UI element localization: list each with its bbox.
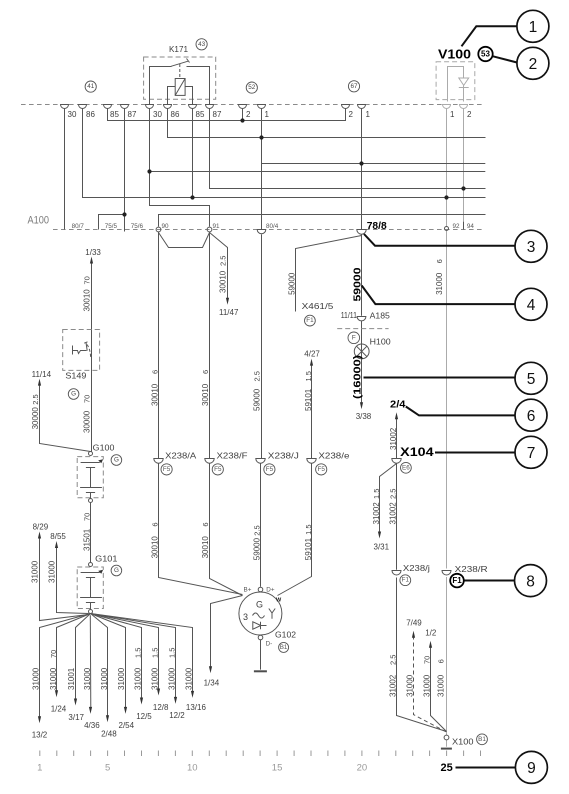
junction V100 pin1 wire and H5 xyxy=(444,195,448,199)
svg-text:2.5: 2.5 xyxy=(253,525,262,535)
pin cup 1 52group xyxy=(258,105,266,109)
wire pin1 52-group to A100 80/4 with branches H1 H2 xyxy=(261,109,263,232)
terminal circle F5 X238/e xyxy=(316,464,327,475)
svg-text:B+: B+ xyxy=(244,587,252,594)
wire pin2 52-group down to H121 junction xyxy=(242,109,244,121)
wire G101 node to 13/16 xyxy=(91,614,193,694)
svg-text:31002: 31002 xyxy=(389,502,398,525)
svg-text:9: 9 xyxy=(527,760,536,777)
svg-text:75/6: 75/6 xyxy=(131,223,144,230)
svg-text:6: 6 xyxy=(527,408,536,425)
callout circle 3 xyxy=(515,230,547,262)
callout circle 4 xyxy=(515,288,547,320)
svg-text:59000: 59000 xyxy=(253,537,262,560)
svg-text:90: 90 xyxy=(162,223,170,230)
pin cup 85 relay xyxy=(189,105,197,109)
A100 78/8 cup xyxy=(357,230,366,235)
junction pin87-left and 75/5 bracket xyxy=(122,212,126,216)
svg-text:F1: F1 xyxy=(402,577,410,584)
svg-text:5: 5 xyxy=(527,371,536,388)
svg-text:1.5: 1.5 xyxy=(304,524,313,534)
svg-text:30010: 30010 xyxy=(150,383,159,406)
relay K171 pin87 wire to horizontal H4 xyxy=(210,100,486,189)
svg-text:31000: 31000 xyxy=(49,667,58,690)
relay K171 dashed box xyxy=(144,57,216,99)
svg-text:86: 86 xyxy=(86,110,95,119)
svg-text:X104: X104 xyxy=(400,445,434,459)
battery G101 terminals xyxy=(89,563,93,567)
svg-text:F5: F5 xyxy=(266,466,274,473)
ground G102 xyxy=(254,670,267,672)
svg-text:41: 41 xyxy=(87,83,95,90)
svg-text:86: 86 xyxy=(171,110,180,119)
svg-text:D+: D+ xyxy=(266,587,275,594)
callout line 9 to ruler 25 xyxy=(456,767,516,769)
connector X238/F cup xyxy=(205,459,214,464)
svg-text:30000: 30000 xyxy=(31,407,40,430)
svg-text:31000: 31000 xyxy=(30,560,39,583)
wire A100 90 down to connector X238/A xyxy=(158,232,160,459)
wire X104 down to connector X238/j xyxy=(396,463,398,570)
callout line 3 to A100 78/8 xyxy=(364,234,515,246)
svg-text:2.5: 2.5 xyxy=(389,489,398,499)
pin cup 1 67group xyxy=(358,105,366,109)
svg-text:3/17: 3/17 xyxy=(68,713,84,722)
svg-text:13/2: 13/2 xyxy=(32,731,48,740)
svg-text:G: G xyxy=(256,600,263,610)
svg-text:30010: 30010 xyxy=(83,289,92,312)
wire generator B+ to 1/34 xyxy=(211,596,243,669)
svg-text:53: 53 xyxy=(481,50,490,59)
relay K171 pin86 wire to horizontal H1 xyxy=(168,100,486,138)
diode V100 dashed box xyxy=(436,62,475,100)
callout circle 2 xyxy=(517,47,549,79)
top connector bus dashed line xyxy=(21,104,483,106)
svg-text:10: 10 xyxy=(187,763,198,774)
svg-text:1/33: 1/33 xyxy=(85,248,101,257)
svg-text:1: 1 xyxy=(366,110,371,119)
svg-text:E6: E6 xyxy=(402,464,410,471)
pin cup 86 relay xyxy=(164,105,172,109)
svg-text:31501: 31501 xyxy=(83,528,92,551)
terminal circle F1 X238/R bold xyxy=(450,574,464,588)
junction pin85-left and pin2-52group xyxy=(240,118,244,122)
svg-text:W: W xyxy=(276,598,282,604)
svg-text:70: 70 xyxy=(83,276,92,284)
svg-text:1: 1 xyxy=(265,110,270,119)
junction pin30 relay and H3 xyxy=(147,169,151,173)
svg-text:G100: G100 xyxy=(93,444,115,453)
svg-text:G102: G102 xyxy=(275,631,297,640)
callout circle 5 xyxy=(515,362,547,394)
callout circle 6 xyxy=(515,399,547,431)
svg-text:X461/5: X461/5 xyxy=(302,302,334,311)
battery G101 plates xyxy=(81,572,100,574)
svg-text:7: 7 xyxy=(527,445,536,462)
position circle 52 xyxy=(246,82,257,93)
relay K171 coil taps xyxy=(168,87,176,105)
relay K171 pin85 wire down to H5 junction xyxy=(192,99,194,197)
svg-text:94: 94 xyxy=(467,223,475,230)
battery G100 terminals xyxy=(89,452,93,456)
svg-text:59000: 59000 xyxy=(288,272,297,295)
svg-text:V100: V100 xyxy=(438,48,471,62)
X100 terminal circle xyxy=(444,735,449,740)
svg-text:70: 70 xyxy=(83,395,92,403)
pin cup 2 67group xyxy=(342,105,350,109)
callout line 8 to X238/R terminal xyxy=(465,580,515,582)
svg-text:31000: 31000 xyxy=(167,667,176,690)
svg-text:85: 85 xyxy=(196,110,205,119)
svg-text:11/11: 11/11 xyxy=(341,311,358,320)
svg-text:6: 6 xyxy=(201,522,210,526)
svg-text:F1: F1 xyxy=(306,317,314,324)
svg-text:S149: S149 xyxy=(65,372,87,381)
pin cup 30 left xyxy=(61,105,69,109)
svg-text:6: 6 xyxy=(201,370,210,374)
terminal circle G of S149 xyxy=(68,389,79,400)
svg-text:3/31: 3/31 xyxy=(374,543,390,552)
svg-text:25: 25 xyxy=(440,762,452,774)
connector X238/R cup xyxy=(442,571,451,576)
svg-text:31000: 31000 xyxy=(100,667,109,690)
junction 80/4 wire and H1 xyxy=(259,135,263,139)
svg-text:2.5: 2.5 xyxy=(31,394,40,404)
pin cup V100-2 xyxy=(460,105,468,109)
svg-text:31000: 31000 xyxy=(83,667,92,690)
svg-text:6: 6 xyxy=(150,522,159,526)
svg-text:2/48: 2/48 xyxy=(101,730,117,739)
scale ruler ticks xyxy=(40,751,481,757)
callout circle 8 xyxy=(515,565,547,597)
generator D+ terminal xyxy=(258,587,263,592)
svg-text:30010: 30010 xyxy=(219,270,228,293)
position circle 43 xyxy=(196,39,207,50)
svg-text:30: 30 xyxy=(68,110,77,119)
terminal circle G of G101 xyxy=(111,565,122,576)
A100 90 terminal xyxy=(156,227,161,232)
svg-text:31000: 31000 xyxy=(406,674,415,697)
svg-text:F5: F5 xyxy=(318,466,326,473)
svg-text:11/47: 11/47 xyxy=(219,308,239,317)
wire H6 horizontal from A100 90 xyxy=(159,215,486,227)
svg-text:31000: 31000 xyxy=(435,272,444,295)
svg-text:43: 43 xyxy=(198,41,206,48)
wire 4/27 down to connector X238/e xyxy=(311,364,313,459)
svg-text:1: 1 xyxy=(529,19,538,36)
pin cup 86 left xyxy=(79,105,87,109)
relay K171 switch contact xyxy=(150,67,172,105)
svg-text:12/5: 12/5 xyxy=(136,712,152,721)
wire A100 91 branch to 11/47 xyxy=(210,233,228,301)
svg-text:X238/A: X238/A xyxy=(165,452,197,461)
svg-text:2.5: 2.5 xyxy=(219,256,228,266)
wire G100 to G101 xyxy=(90,503,92,562)
svg-text:59101: 59101 xyxy=(304,388,313,411)
wire G101 node to 13/2 xyxy=(40,614,91,719)
svg-text:2: 2 xyxy=(349,110,354,119)
svg-text:12/2: 12/2 xyxy=(169,711,185,720)
svg-text:A100: A100 xyxy=(28,215,50,227)
svg-text:30: 30 xyxy=(153,110,162,119)
wire X238/e to generator W xyxy=(278,464,312,596)
A100 80/4 cup xyxy=(257,230,266,234)
connector A185 11/11 cup xyxy=(357,317,366,321)
wire X238/F to generator B+ xyxy=(210,464,243,596)
wire V100 pin1 to A100 terminal 92 (gray) xyxy=(446,109,448,227)
relay K171 pin30 wire down with branch H3 and to A100 91 xyxy=(150,100,210,227)
svg-text:1.5: 1.5 xyxy=(372,489,381,499)
svg-text:3/38: 3/38 xyxy=(356,412,372,421)
A100 92 terminal xyxy=(445,227,449,231)
svg-text:1: 1 xyxy=(37,763,42,774)
svg-text:30000: 30000 xyxy=(83,410,92,433)
position circle 67 xyxy=(348,81,359,92)
terminal circle F5 X238/A xyxy=(161,464,172,475)
wire G101 node to 2/48 xyxy=(91,614,108,718)
switch S149 dashed box xyxy=(63,330,100,371)
svg-text:31002: 31002 xyxy=(389,427,398,450)
svg-text:20: 20 xyxy=(357,763,368,774)
wire X104 2/4 down to connector X104 xyxy=(396,417,398,459)
svg-text:F5: F5 xyxy=(163,466,171,473)
pin cup 87 left xyxy=(121,105,129,109)
wire X238/A to generator B+ xyxy=(159,464,243,595)
pin cup 2 52group xyxy=(239,105,247,109)
callout line 6 to 2/4 xyxy=(406,407,516,416)
callout circle 7 xyxy=(515,436,547,468)
svg-text:2: 2 xyxy=(529,56,538,73)
svg-text:1/2: 1/2 xyxy=(425,629,437,638)
svg-text:3: 3 xyxy=(527,239,536,256)
svg-text:59101: 59101 xyxy=(304,537,313,560)
svg-text:2: 2 xyxy=(467,110,472,119)
svg-text:B1: B1 xyxy=(478,736,486,743)
svg-text:70: 70 xyxy=(422,656,431,664)
svg-text:1.5: 1.5 xyxy=(167,648,176,658)
connector X238/j cup xyxy=(392,571,401,576)
wire A100 91 down to connector X238/F xyxy=(209,232,211,459)
svg-text:31000: 31000 xyxy=(185,667,194,690)
junction V100 pin2 wire and H4 xyxy=(461,186,465,190)
wire bracket to A100 75/5 xyxy=(99,215,125,230)
wire generator D- to ground xyxy=(260,640,262,670)
svg-text:6: 6 xyxy=(150,370,159,374)
svg-text:X238/R: X238/R xyxy=(455,565,488,574)
wire 1/33 down through switch S149 to G100 xyxy=(91,262,93,452)
svg-text:3: 3 xyxy=(243,612,248,622)
junction 78/8 wire and H2 xyxy=(359,161,363,165)
wire V100 pin2 to A100 terminal 94 (gray) xyxy=(463,109,465,230)
wire pin1 67-group to A100 78/8 xyxy=(361,109,363,230)
wire X238/J to generator D+ xyxy=(260,463,262,587)
svg-text:87: 87 xyxy=(128,110,137,119)
svg-text:B1: B1 xyxy=(280,644,288,651)
svg-text:80/7: 80/7 xyxy=(72,223,85,230)
terminal circle B1 G102 xyxy=(279,642,289,652)
svg-text:K171: K171 xyxy=(169,45,189,54)
svg-text:X238/F: X238/F xyxy=(217,452,248,461)
terminal circle E6 X104 xyxy=(401,462,412,473)
connector X238/A cup xyxy=(154,459,163,464)
svg-text:4: 4 xyxy=(527,297,536,314)
wire A100 90-91 bridge below line xyxy=(159,233,210,248)
generator G102 diode symbol xyxy=(253,622,261,629)
svg-text:31001: 31001 xyxy=(67,667,76,690)
svg-text:12/8: 12/8 xyxy=(153,703,169,712)
svg-text:F5: F5 xyxy=(214,466,222,473)
svg-text:70: 70 xyxy=(49,650,58,658)
diode V100 internal wiring xyxy=(448,67,464,102)
terminal circle G of G100 xyxy=(111,455,122,466)
terminal circle F1 X461/5 xyxy=(305,315,316,326)
svg-text:2/4: 2/4 xyxy=(390,399,406,411)
wire pin30 left group to A100 80/7 xyxy=(64,109,66,230)
wire G101 node to 12/2 xyxy=(91,614,176,700)
battery G101 dashed box xyxy=(77,567,103,609)
wire G101 node to 2/54 xyxy=(91,614,126,710)
wire 1/2 down to X100 xyxy=(431,646,447,732)
svg-text:31002: 31002 xyxy=(389,674,398,697)
connector X104 cup xyxy=(392,459,401,464)
svg-text:31000: 31000 xyxy=(437,674,446,697)
svg-text:G: G xyxy=(114,567,119,574)
svg-text:1/34: 1/34 xyxy=(204,679,220,688)
svg-text:87: 87 xyxy=(213,110,222,119)
callout circle 1 xyxy=(517,10,549,42)
relay K171 coil xyxy=(175,79,185,96)
wire 8/29 down to G101 node xyxy=(40,537,89,621)
wire 7/49 dashed down to X100 xyxy=(414,636,447,732)
svg-text:30010: 30010 xyxy=(201,383,210,406)
ground X100 xyxy=(441,748,452,750)
svg-text:F: F xyxy=(352,334,356,341)
svg-text:4/36: 4/36 xyxy=(84,721,100,730)
svg-text:X100: X100 xyxy=(452,738,474,747)
position circle 53 bold xyxy=(478,47,492,61)
wire G101 node to 4/36 xyxy=(89,615,92,709)
svg-text:8: 8 xyxy=(526,573,535,590)
wire A185 through lamp H100 to 3/38 xyxy=(361,320,363,404)
wire G101 node to 3/17 xyxy=(76,614,91,701)
switch S149 thermal contact symbol xyxy=(72,346,74,355)
svg-text:31000: 31000 xyxy=(31,667,40,690)
svg-text:30010: 30010 xyxy=(201,536,210,559)
svg-text:1/24: 1/24 xyxy=(51,705,67,714)
A100 91 terminal xyxy=(207,227,212,232)
svg-text:2.5: 2.5 xyxy=(253,371,262,381)
svg-text:7/49: 7/49 xyxy=(406,619,422,628)
terminal circle F5 X238/J xyxy=(264,464,275,475)
svg-text:1.5: 1.5 xyxy=(304,371,313,381)
wire X238/j down to X100 xyxy=(397,578,447,732)
svg-text:2: 2 xyxy=(246,110,251,119)
lamp H100 symbol xyxy=(354,344,369,359)
wire A100 78/8 branch to connector X461/5 xyxy=(296,236,362,312)
svg-text:F1: F1 xyxy=(452,576,462,585)
svg-text:H100: H100 xyxy=(370,338,392,347)
svg-text:8/55: 8/55 xyxy=(50,532,66,541)
svg-text:G: G xyxy=(114,457,119,464)
svg-text:59000: 59000 xyxy=(253,388,262,411)
callout line 7 to X104 xyxy=(435,452,515,454)
svg-text:6: 6 xyxy=(435,259,444,263)
svg-text:31000: 31000 xyxy=(133,667,142,690)
svg-text:75/5: 75/5 xyxy=(105,223,118,230)
svg-text:X238/J: X238/J xyxy=(268,452,299,461)
wire 11/14 branch joining G100 wire xyxy=(40,384,91,452)
pin cup 85 left xyxy=(104,105,112,109)
svg-text:11/14: 11/14 xyxy=(32,370,52,379)
svg-text:D-: D- xyxy=(266,641,273,648)
svg-text:59000: 59000 xyxy=(351,267,363,301)
pin cup V100-1 xyxy=(443,105,451,109)
svg-text:31002: 31002 xyxy=(372,502,381,525)
terminal circle B1 X100 xyxy=(477,734,488,745)
connector X238/J cup xyxy=(256,459,265,464)
terminal circle F of H100 xyxy=(348,332,360,344)
svg-text:78/8: 78/8 xyxy=(367,220,387,232)
relay K171 coil link dashed xyxy=(179,64,181,79)
wire G101 node to 12/8 xyxy=(91,614,159,691)
svg-text:30010: 30010 xyxy=(150,536,159,559)
battery G100 dashed box xyxy=(77,457,103,498)
unit A100 dashed line xyxy=(53,229,482,231)
svg-text:1.5: 1.5 xyxy=(133,648,142,658)
wire X104 branch to 3/31 xyxy=(380,464,397,534)
svg-text:5: 5 xyxy=(105,763,110,774)
pin cup 30 relay xyxy=(146,105,154,109)
svg-text:85: 85 xyxy=(110,110,119,119)
wire 8/55 down to G101 node xyxy=(57,547,89,614)
svg-text:X238/e: X238/e xyxy=(318,452,350,461)
wire pin87 left group to A100 75/6 xyxy=(124,109,126,232)
svg-text:A185: A185 xyxy=(370,312,391,321)
svg-text:31000: 31000 xyxy=(422,674,431,697)
wire A100 terminal 92 down to connector X238/R and X100 (gray) xyxy=(446,231,448,569)
callout circle 9 xyxy=(515,751,547,783)
svg-text:31000: 31000 xyxy=(151,667,160,690)
svg-text:52: 52 xyxy=(248,84,256,91)
svg-text:X238/j: X238/j xyxy=(403,564,430,573)
connector X238/e cup xyxy=(307,459,316,464)
H100 boundary dashed xyxy=(337,328,388,330)
wire pin85 left group across to pin2 of 67 group xyxy=(108,109,346,121)
wire X100 to ground xyxy=(446,740,448,747)
svg-text:(16000): (16000) xyxy=(351,355,363,399)
generator G102 circle xyxy=(239,592,282,635)
pin cup 87 relay xyxy=(206,105,214,109)
svg-text:15: 15 xyxy=(272,763,283,774)
svg-text:8/29: 8/29 xyxy=(33,523,49,532)
terminal circle F1 X238/j xyxy=(400,575,411,586)
wire H3 horizontal from pin30 junction xyxy=(150,171,486,173)
svg-text:31000: 31000 xyxy=(48,560,57,583)
position circle 41 xyxy=(85,81,96,92)
wire G101 node to 1/24 xyxy=(57,614,91,693)
A100 terminal 94 tick xyxy=(463,222,465,230)
wire A100 80/4 down to connector X238/J xyxy=(261,234,263,458)
callout line 5 to wire 16000 xyxy=(364,377,516,379)
svg-text:80/4: 80/4 xyxy=(266,223,279,230)
terminal circle F5 X238/F xyxy=(212,464,223,475)
svg-text:1.5: 1.5 xyxy=(151,648,160,658)
svg-text:2/54: 2/54 xyxy=(119,721,135,730)
wire H2 horizontal xyxy=(261,163,485,165)
diode V100 diode symbol xyxy=(459,78,469,85)
callout line 2 to circle 53 xyxy=(493,56,518,62)
svg-text:6: 6 xyxy=(437,659,446,663)
